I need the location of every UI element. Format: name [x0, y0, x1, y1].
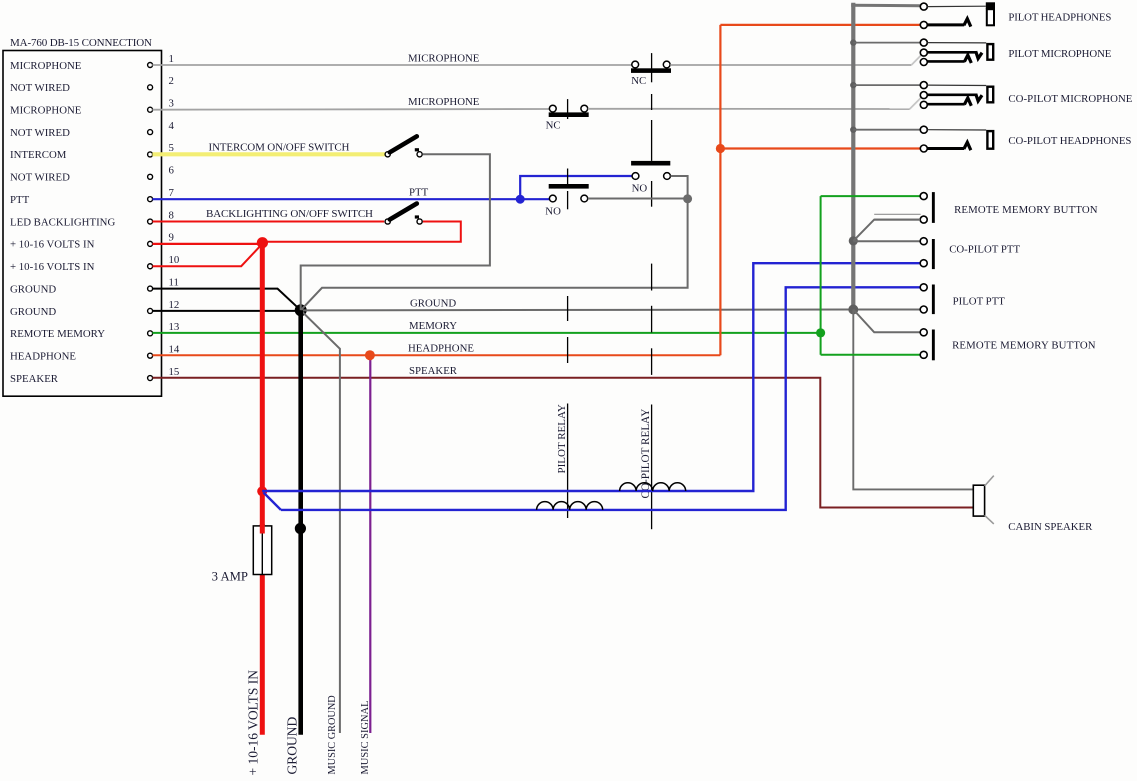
intercom switch lever: [390, 136, 417, 152]
wire bus to pilot mic sleeve: [853, 42, 920, 44]
bus junction 1: [850, 39, 856, 45]
co-pilot PTT contact B: [920, 260, 927, 267]
co-pilot mic tip arrow: [964, 98, 971, 106]
svg-text:CO-PILOT PTT: CO-PILOT PTT: [949, 244, 1020, 256]
fuse element line: [261, 526, 263, 574]
pushbutton NO3 stem above: [651, 139, 653, 161]
pin 1 circle: [148, 63, 153, 68]
svg-text:MICROPHONE: MICROPHONE: [408, 53, 480, 65]
pilot headphones jack body top: [986, 2, 995, 9]
svg-text:9: 9: [169, 232, 174, 244]
pilot mic jack body: [987, 44, 993, 60]
pushbutton NO3 contact R: [664, 173, 671, 180]
wire pin7 PTT blue: [152, 198, 549, 200]
intercom switch contact 2 mark: [415, 148, 419, 151]
co-pilot mic tip bar: [927, 103, 964, 106]
wire bus diag to remote memory 2: [853, 310, 920, 333]
svg-text:PILOT RELAY: PILOT RELAY: [556, 404, 568, 473]
backlighting switch contact 1: [385, 219, 390, 224]
svg-text:MICROPHONE: MICROPHONE: [10, 60, 82, 72]
pin 4 circle: [148, 130, 153, 135]
svg-text:6: 6: [169, 165, 175, 177]
svg-text:8: 8: [169, 209, 174, 221]
pin 5 circle: [148, 152, 153, 157]
svg-text:PILOT HEADPHONES: PILOT HEADPHONES: [1008, 11, 1111, 23]
relay link column A dashes: [567, 296, 569, 518]
wire blue co-pilot relay: [262, 263, 920, 491]
wire NO4 return gray: [588, 198, 688, 200]
wire ground extension gray: [301, 309, 921, 312]
junction red row9: [257, 237, 268, 248]
svg-text:BACKLIGHTING ON/OFF SWITCH: BACKLIGHTING ON/OFF SWITCH: [206, 208, 373, 220]
junction red rail bottom: [257, 486, 267, 496]
pin 7 circle: [148, 197, 153, 202]
co-pilot mic ring arrow: [976, 94, 982, 101]
svg-text:NO: NO: [632, 183, 648, 195]
svg-text:SPEAKER: SPEAKER: [10, 373, 59, 385]
bus junction 5: [848, 305, 858, 315]
wire row1 diagonal to pilot mic ring: [911, 55, 921, 65]
wire pin15 speaker maroon: [152, 378, 973, 508]
pushbutton NC2 bar: [549, 112, 589, 117]
bus junction 2: [850, 82, 856, 88]
pin 9 circle: [148, 241, 153, 246]
pushbutton NO3 contact L: [632, 173, 639, 180]
pushbutton NC1 stem: [651, 53, 653, 82]
wire green riser: [820, 196, 822, 355]
pin 15 circle: [148, 376, 153, 381]
wire pin14 headphone orange: [152, 354, 720, 356]
pushbutton NC1 bar: [631, 68, 671, 73]
wire row3 right of NC2: [588, 108, 910, 110]
svg-text:GROUND: GROUND: [410, 298, 456, 310]
pushbutton NC1 contact L: [632, 61, 639, 68]
svg-text:+ 10-16 VOLTS IN: + 10-16 VOLTS IN: [10, 261, 95, 273]
inductor co-pilot relay coil: [620, 483, 686, 491]
fuse 3 AMP body: [253, 526, 271, 575]
svg-text:MA-760 DB-15 CONNECTION: MA-760 DB-15 CONNECTION: [10, 37, 152, 49]
wire music ground gray: [301, 310, 340, 733]
wire intercom switch return gray: [301, 154, 490, 310]
pilot headphones plug tip bar: [927, 23, 964, 26]
bus junction 3: [850, 127, 856, 133]
svg-text:MEMORY: MEMORY: [409, 320, 457, 332]
pushbutton NO3 stem below: [651, 181, 653, 207]
wire NO3 return gray: [671, 176, 688, 195]
pilot mic ring arrow: [976, 51, 982, 58]
remote memory 1 thin parallel line: [874, 213, 920, 215]
remote memory button 2 contact A: [920, 329, 927, 336]
wire row1 right of NC1: [670, 64, 911, 66]
pilot mic ring contact: [920, 49, 927, 56]
svg-text:MICROPHONE: MICROPHONE: [408, 96, 480, 108]
gray bus vertical: [851, 3, 855, 310]
wire remote memory 1 contact B: [874, 219, 920, 221]
svg-text:7: 7: [169, 187, 175, 199]
wire blue pilot relay: [281, 287, 920, 510]
pushbutton NO4 stem above: [567, 169, 569, 185]
wire pin9 volts red: [152, 243, 262, 245]
svg-text:11: 11: [169, 276, 179, 288]
wire pin10 volts red diagonal: [152, 244, 262, 267]
co-pilot mic ring contact: [920, 92, 927, 99]
wire pin3 microphone left: [152, 108, 549, 111]
pilot mic tip arrow: [964, 55, 971, 63]
pushbutton NO4 bar: [549, 184, 589, 189]
pushbutton NO4 contact R: [581, 195, 588, 202]
co-pilot headphones jack body: [987, 131, 993, 149]
svg-text:MUSIC SIGNAL: MUSIC SIGNAL: [360, 701, 371, 775]
svg-text:GROUND: GROUND: [10, 283, 56, 295]
wire row3 diagonal to co-pilot mic ring: [910, 98, 921, 109]
svg-text:CO-PILOT MICROPHONE: CO-PILOT MICROPHONE: [1008, 93, 1132, 105]
wire orange to pilot headphones: [720, 24, 920, 26]
wire green to remote memory 1: [821, 195, 921, 197]
pin 8 circle: [148, 219, 153, 224]
pin 2 circle: [148, 85, 153, 90]
pin 10 circle: [148, 264, 153, 269]
svg-text:+ 10-16 VOLTS IN: + 10-16 VOLTS IN: [10, 239, 95, 251]
fuse red wire overlap: [260, 524, 265, 534]
wire bus to co-pilot mic sleeve: [853, 84, 920, 86]
co-pilot headphones tip contact: [920, 145, 927, 152]
junction orange riser: [716, 144, 725, 153]
pin 14 circle: [148, 353, 153, 358]
svg-text:GROUND: GROUND: [285, 716, 300, 774]
svg-text:INTERCOM: INTERCOM: [10, 149, 67, 161]
pin 6 circle: [148, 174, 153, 179]
wire bus diag to remote memory 1: [853, 220, 920, 241]
svg-text:SPEAKER: SPEAKER: [409, 365, 458, 377]
pushbutton NC2 contact R: [581, 105, 588, 112]
junction orange music signal: [365, 350, 375, 360]
wire backlighting switch return red: [267, 222, 461, 242]
pushbutton NO3 bar: [631, 161, 670, 166]
pilot headphones tip contact: [920, 21, 927, 28]
thick black ground rail: [298, 310, 303, 735]
remote memory button 1 contact B: [920, 216, 927, 223]
svg-text:NC: NC: [546, 120, 561, 132]
bus junction 4: [849, 236, 858, 245]
pilot mic sleeve line: [927, 42, 986, 44]
MA-760 DB-15 connector box: [3, 51, 162, 397]
svg-text:HEADPHONE: HEADPHONE: [10, 350, 76, 362]
wire bus to co-pilot PTT: [853, 240, 920, 242]
junction ground black: [295, 304, 307, 316]
backlighting switch contact 2 mark: [415, 215, 419, 218]
svg-text:CABIN SPEAKER: CABIN SPEAKER: [1008, 521, 1093, 533]
wire blue pilot relay diagonal: [264, 493, 281, 510]
junction gray NO returns: [683, 194, 692, 203]
svg-text:PTT: PTT: [409, 187, 429, 199]
wire pin8 backlighting red: [152, 221, 384, 223]
pilot headphones sleeve line: [927, 5, 986, 7]
remote memory button 1 bar: [932, 192, 935, 223]
svg-text:1: 1: [169, 53, 174, 65]
wire orange headphone riser: [719, 25, 721, 355]
co-pilot PTT contact A: [920, 238, 927, 245]
wire green to remote memory 2: [821, 354, 921, 356]
pilot mic sleeve contact: [920, 39, 927, 46]
cabin speaker cone top: [985, 476, 994, 486]
co-pilot headphones sleeve contact: [920, 126, 927, 133]
pushbutton NO4 contact L: [549, 195, 556, 202]
svg-text:14: 14: [169, 343, 180, 355]
svg-text:REMOTE MEMORY BUTTON: REMOTE MEMORY BUTTON: [952, 340, 1096, 352]
remote memory button 2 bar: [932, 330, 935, 361]
svg-text:NOT WIRED: NOT WIRED: [10, 172, 70, 184]
wire gray NO return down-left: [301, 199, 688, 310]
svg-text:13: 13: [169, 321, 180, 333]
intercom switch contact 1: [385, 152, 390, 157]
svg-text:PILOT PTT: PILOT PTT: [953, 296, 1006, 308]
co-pilot headphones sleeve line: [927, 129, 986, 131]
svg-text:REMOTE MEMORY BUTTON: REMOTE MEMORY BUTTON: [954, 204, 1098, 216]
wire blue PTT branch up to NO contact: [520, 176, 632, 199]
svg-text:GROUND: GROUND: [10, 306, 56, 318]
wire music signal purple: [369, 355, 371, 733]
co-pilot mic sleeve line: [927, 84, 986, 86]
pilot mic tip contact: [920, 59, 927, 66]
junction green: [816, 328, 825, 337]
svg-text:10: 10: [169, 254, 180, 266]
svg-text:NOT WIRED: NOT WIRED: [10, 127, 70, 139]
gray bus top to pilot headphones sleeve: [851, 4, 920, 8]
pin 3 circle: [148, 107, 153, 112]
intercom switch contact 2: [417, 152, 422, 157]
pushbutton NC1 contact R: [663, 61, 670, 68]
remote memory button 2 contact B: [920, 351, 927, 358]
svg-text:2: 2: [169, 75, 174, 87]
svg-text:NO: NO: [545, 206, 561, 218]
svg-text:PILOT MICROPHONE: PILOT MICROPHONE: [1008, 48, 1111, 60]
svg-text:MICROPHONE: MICROPHONE: [10, 105, 82, 117]
pilot mic ring bar: [927, 51, 976, 54]
cabin speaker cone bottom: [985, 515, 994, 524]
svg-text:INTERCOM ON/OFF SWITCH: INTERCOM ON/OFF SWITCH: [209, 142, 350, 154]
svg-text:3 AMP: 3 AMP: [212, 570, 248, 584]
co-pilot headphones plug tip bar: [927, 147, 964, 150]
svg-text:+ 10-16 VOLTS IN: + 10-16 VOLTS IN: [246, 670, 261, 776]
pilot headphones sleeve contact: [920, 3, 927, 10]
pin 12 circle: [148, 308, 153, 313]
backlighting switch lever: [390, 204, 417, 220]
svg-text:HEADPHONE: HEADPHONE: [408, 343, 474, 355]
backlighting switch contact 2: [417, 219, 422, 224]
svg-text:NC: NC: [631, 75, 646, 87]
pushbutton NC2 stem: [567, 99, 569, 119]
wire bus to co-pilot headphones sleeve: [853, 129, 920, 131]
relay link column B dashes: [651, 94, 653, 529]
svg-text:NOT WIRED: NOT WIRED: [10, 82, 70, 94]
svg-text:CO-PILOT HEADPHONES: CO-PILOT HEADPHONES: [1008, 135, 1131, 147]
co-pilot mic ring bar: [927, 94, 976, 97]
wire pin11 ground black diagonal: [152, 289, 300, 311]
svg-text:PTT: PTT: [10, 194, 30, 206]
co-pilot PTT bar: [932, 239, 935, 269]
pushbutton NC2 contact L: [549, 105, 556, 112]
svg-text:12: 12: [169, 299, 180, 311]
pilot mic tip bar: [927, 60, 964, 63]
junction black rail: [295, 523, 306, 534]
pilot PTT contact A: [920, 284, 927, 291]
pilot headphones plug tip arrow: [964, 19, 971, 27]
pilot PTT bar: [932, 285, 935, 315]
co-pilot headphones plug tip arrow: [964, 142, 971, 150]
pin 13 circle: [148, 331, 153, 336]
cabin speaker body: [973, 485, 984, 516]
wire pin1 microphone left: [152, 64, 631, 66]
wire orange to co-pilot headphones: [720, 147, 920, 149]
co-pilot mic sleeve contact: [920, 82, 927, 89]
svg-text:4: 4: [169, 120, 175, 132]
wire bus down to cabin speaker: [853, 310, 973, 490]
svg-text:LED BACKLIGHTING: LED BACKLIGHTING: [10, 216, 115, 228]
thick red +10-16V rail: [260, 240, 265, 735]
pin 11 circle: [148, 286, 153, 291]
remote memory button 1 contact A: [920, 193, 927, 200]
junction blue PTT: [516, 195, 525, 204]
pushbutton NO4 stem below: [567, 191, 569, 209]
svg-text:3: 3: [169, 98, 174, 110]
pilot PTT contact B: [920, 306, 927, 313]
co-pilot mic tip contact: [920, 101, 927, 108]
inductor pilot relay coil: [537, 502, 603, 510]
wire pin13 memory green: [152, 332, 820, 334]
co-pilot mic jack body: [987, 87, 993, 103]
svg-text:15: 15: [169, 366, 180, 378]
svg-text:MUSIC GROUND: MUSIC GROUND: [327, 695, 338, 775]
wire pin12 ground black: [152, 310, 300, 312]
wire pin5 intercom yellow: [152, 152, 385, 156]
pilot headphones jack body: [987, 9, 994, 25]
svg-text:REMOTE MEMORY: REMOTE MEMORY: [10, 328, 105, 340]
